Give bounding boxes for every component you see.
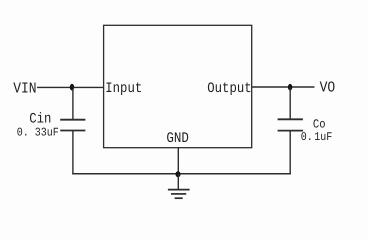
ground symbol bar 1 — [168, 189, 190, 191]
junction dot at VIN/Cin node — [70, 84, 74, 91]
svg-text:Output: Output — [207, 80, 251, 96]
ground symbol bar 3 — [175, 197, 183, 199]
wire junction to Cin top — [72, 87, 74, 119]
capacitor C2 Co bottom plate — [278, 130, 303, 132]
capacitor C1 Cin bottom plate — [60, 130, 85, 132]
capacitor C1 Cin top plate — [60, 119, 85, 121]
wire Co bottom to ground rail — [289, 131, 291, 175]
svg-text:GND: GND — [166, 130, 189, 146]
svg-text:Input: Input — [105, 80, 142, 96]
svg-text:VIN: VIN — [13, 79, 36, 97]
svg-text:1uF: 1uF — [314, 132, 332, 145]
ground rail wire — [72, 173, 291, 175]
capacitor C2 Co top plate — [278, 118, 303, 120]
svg-text:Co: Co — [313, 118, 326, 132]
regulator IC U1 body — [104, 25, 252, 147]
wire Output pin to VO — [252, 86, 315, 88]
svg-text:Cin: Cin — [29, 111, 51, 127]
svg-text:VO: VO — [320, 79, 336, 97]
svg-text:33uF: 33uF — [35, 127, 59, 140]
svg-text:0.: 0. — [17, 127, 29, 140]
svg-text:0.: 0. — [301, 132, 313, 145]
junction dot at VO/Co node — [288, 84, 292, 91]
ground symbol bar 2 — [171, 193, 186, 195]
ground symbol stem — [177, 174, 179, 190]
wire GND pin to ground rail — [177, 148, 179, 174]
wire VIN to Input pin — [37, 86, 104, 88]
wire junction to Co top — [289, 87, 291, 119]
wire Cin bottom to ground rail — [72, 131, 74, 175]
junction dot at ground rail — [176, 171, 181, 177]
